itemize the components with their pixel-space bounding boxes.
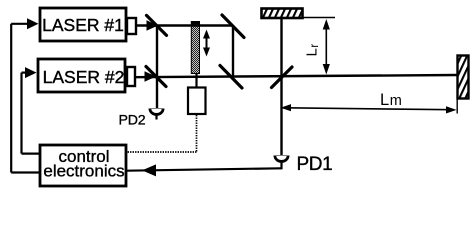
laser 1 output coupler [127, 18, 136, 34]
beamsplitter BS2 [146, 67, 166, 87]
svg-text:Lm: Lm [380, 91, 402, 109]
Lr dimension double arrow [323, 19, 330, 75]
arrowhead on PD1 wire pointing left [142, 164, 156, 176]
mirror fold M3 [222, 15, 244, 38]
laser 2 output coupler [127, 67, 135, 86]
laser 2 box [38, 59, 125, 92]
dotted control line horizontal to control box [128, 151, 197, 153]
beam arrowhead on beam1 [147, 20, 159, 31]
photodetector PD2 [149, 109, 165, 120]
wire: control box left lower entry [11, 171, 39, 173]
photodetector PD1 [274, 156, 290, 170]
arrowhead into laser2 [25, 67, 37, 78]
Lm dimension double arrow [281, 104, 457, 113]
beamsplitter BS1 [147, 15, 167, 35]
beam: vertical from top mirror through BS4 to PD1 [280, 17, 282, 155]
laser 1 box [40, 8, 126, 41]
wire: control box left upper entry [22, 153, 40, 155]
svg-text:PD1: PD1 [297, 154, 333, 175]
wire: feedback control->laser2 vertical [20, 73, 22, 154]
extension line from reference mirror [303, 17, 335, 19]
beam: vertical between BS1 and BS2 and down to PD2 [156, 26, 158, 109]
actuator box [188, 88, 206, 115]
dotted control line vertical from actuator [196, 115, 198, 152]
arrowhead into laser1 [27, 18, 39, 29]
beam: laser1 output horizontal [136, 24, 233, 26]
beam: vertical between mirror M3 and BS3 [232, 26, 234, 77]
beam: laser2 output horizontal main [134, 75, 457, 77]
svg-text:LASER #2: LASER #2 [43, 67, 125, 87]
measurement mirror (right, hatched) [458, 56, 469, 99]
svg-text:PD2: PD2 [119, 113, 146, 129]
wire: feedback into laser1 horizontal [11, 23, 31, 25]
beamsplitter BS4 (interferometer) [272, 67, 293, 88]
wire: feedback into laser2 horizontal [22, 71, 30, 73]
movable attenuator bar (stippled) [191, 22, 199, 74]
control electronics box [40, 145, 126, 186]
translation double arrow [203, 30, 210, 57]
actuator stem [195, 74, 197, 87]
extension line below measurement mirror [456, 99, 458, 114]
svg-text:electronics: electronics [43, 162, 124, 181]
reference mirror (top, hatched) [262, 9, 303, 19]
wire PD1 to control electronics [127, 168, 282, 170]
beamsplitter BS3 [220, 66, 242, 89]
svg-text:LASER #1: LASER #1 [42, 15, 124, 35]
wire: feedback control->laser1 vertical [10, 24, 12, 173]
beam arrowhead on beam2 [145, 71, 157, 82]
